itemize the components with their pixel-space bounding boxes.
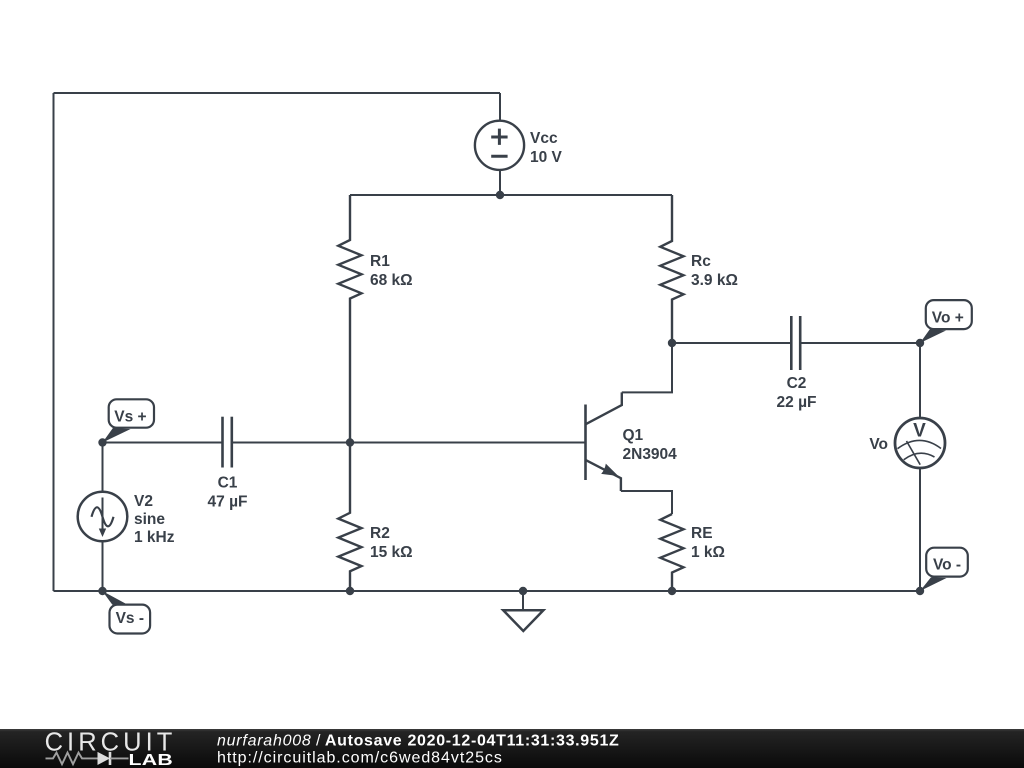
label V2 value [134, 493, 175, 546]
wire Vcc bottom lead [499, 170, 501, 196]
junction Vo+ node [916, 339, 924, 347]
svg-text:Q1: Q1 [623, 427, 644, 444]
resistor R1 [338, 195, 361, 443]
svg-text:Vs +: Vs + [114, 408, 146, 425]
resistor Rc [660, 195, 683, 343]
svg-text:V: V [913, 421, 926, 442]
wire voltmeter to Vo- [919, 468, 921, 591]
svg-text:15 kΩ: 15 kΩ [370, 544, 413, 561]
resistor R2 [338, 443, 361, 592]
label Vcc value [530, 130, 563, 166]
svg-text:Vs -: Vs - [116, 610, 144, 627]
wire left outer vertical [53, 93, 55, 591]
label C2 value [777, 375, 817, 411]
svg-text:RE: RE [691, 525, 713, 542]
svg-text:1 kHz: 1 kHz [134, 529, 175, 546]
svg-text:3.9 kΩ: 3.9 kΩ [691, 272, 738, 289]
svg-text:Vcc: Vcc [530, 130, 558, 147]
svg-text:V2: V2 [134, 493, 153, 510]
node Vs- flag [102, 591, 150, 634]
svg-text:Vo -: Vo - [933, 557, 961, 574]
svg-text:sine: sine [134, 511, 165, 528]
svg-text:nurfarah008 / Autosave 2020-12: nurfarah008 / Autosave 2020-12-04T11:31:… [217, 733, 620, 750]
svg-text:Vo: Vo [869, 436, 888, 453]
label R1 value [370, 253, 413, 289]
capacitor C1 [223, 417, 232, 468]
svg-text:R2: R2 [370, 525, 390, 542]
label C1 value [208, 475, 248, 511]
svg-text:22 µF: 22 µF [777, 394, 817, 411]
wire C2 to Vo+ [800, 342, 920, 344]
wire top rail [350, 194, 672, 196]
node Vo+ flag [920, 300, 972, 343]
label R2 value [370, 525, 413, 561]
svg-text:C1: C1 [218, 475, 238, 492]
node Vo- flag [920, 548, 968, 591]
label Rc value [691, 253, 738, 289]
resistor RE [660, 514, 683, 591]
label Q1 value [623, 427, 678, 463]
wire emitter routing [621, 491, 672, 514]
label RE value [691, 525, 725, 561]
svg-text:1 kΩ: 1 kΩ [691, 544, 725, 561]
wire collector routing [622, 343, 672, 392]
junction Vs- node [98, 587, 106, 595]
capacitor C2 [791, 316, 800, 370]
svg-text:C2: C2 [787, 375, 807, 392]
node Vs+ flag [103, 399, 155, 442]
logo resistor-diode symbol [46, 753, 98, 765]
wire top horizontal [54, 92, 501, 94]
svg-text:R1: R1 [370, 253, 390, 270]
svg-text:2N3904: 2N3904 [623, 446, 678, 463]
voltmeter Vo [895, 418, 945, 468]
svg-text:Vo +: Vo + [932, 310, 964, 327]
source V2 [78, 443, 128, 592]
svg-text:Rc: Rc [691, 253, 711, 270]
svg-text:68 kΩ: 68 kΩ [370, 272, 413, 289]
wire Vcc top lead [499, 93, 501, 122]
junction collector node [668, 339, 676, 347]
svg-text:47 µF: 47 µF [208, 494, 248, 511]
junction Vs+ node [98, 438, 106, 446]
junction Vcc node [496, 191, 504, 199]
wire Vo+ to voltmeter [919, 343, 921, 418]
footer bar [0, 729, 1024, 768]
junction RE bottom [668, 587, 676, 595]
source Vcc [475, 121, 524, 170]
wire C1 to base [232, 442, 585, 444]
svg-text:LAB: LAB [129, 751, 174, 768]
junction R2 bottom [346, 587, 354, 595]
junction Vo- node [916, 587, 924, 595]
ground [503, 587, 543, 631]
wire collector to C2 [672, 342, 791, 344]
svg-text:10 V: 10 V [530, 149, 563, 166]
svg-text:http://circuitlab.com/c6wed84v: http://circuitlab.com/c6wed84vt25cs [217, 750, 503, 767]
wire bottom rail [54, 590, 921, 592]
junction base node [346, 438, 354, 446]
transistor Q1 [586, 392, 622, 491]
wire Vs+ to C1 [103, 442, 223, 444]
